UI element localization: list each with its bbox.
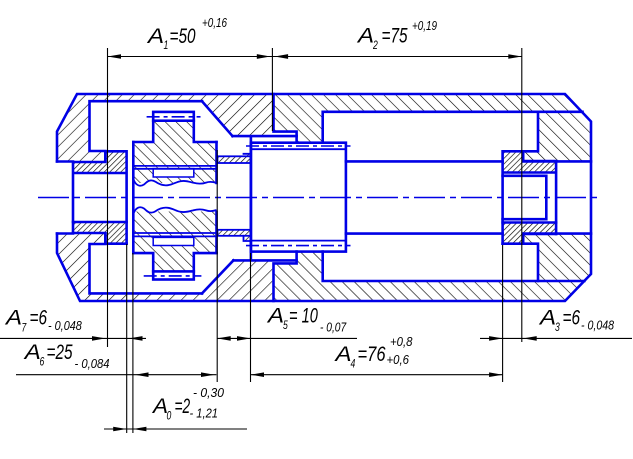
collar left rim [233, 136, 297, 260]
left bushing bottom section [73, 222, 127, 244]
svg-text:A: A [266, 303, 284, 327]
white slot in hub top [153, 169, 194, 177]
left bushing top section [73, 151, 127, 173]
left bore opening edges [57, 162, 73, 234]
arrows A6 [135, 372, 149, 377]
svg-text:A: A [538, 305, 556, 329]
svg-text:+0,19: +0,19 [412, 20, 438, 33]
arrows A0 [113, 427, 127, 432]
svg-text:A: A [4, 305, 22, 329]
extension line right bushing left face [502, 245, 504, 382]
svg-text:4: 4 [351, 358, 356, 371]
right bushing bottom section [503, 223, 556, 244]
svg-text:=6: =6 [30, 305, 48, 329]
dimension line A7 A5 A3 [0, 337, 632, 339]
extension line bushing flange right face [126, 244, 128, 433]
svg-text:A: A [333, 341, 351, 365]
chamber slant top [202, 101, 233, 136]
cup bore surfaces [523, 161, 591, 233]
gear hub top [133, 142, 216, 183]
housing cup top-right wall [523, 112, 591, 162]
thin blue inner lines [133, 149, 346, 240]
svg-text:A: A [146, 23, 164, 47]
arrows A7 [92, 336, 106, 341]
housing left body, top half [57, 94, 272, 162]
spacer outline [218, 156, 251, 163]
extension line collar left face [250, 253, 252, 382]
shaft [346, 161, 503, 233]
svg-text:3: 3 [555, 322, 560, 335]
svg-text:=75: =75 [382, 23, 408, 47]
chamber slant bottom [202, 260, 233, 293]
housing cup top band [272, 94, 582, 143]
gear flanks and ledges [133, 121, 216, 142]
spacer ring bottom lip [244, 236, 251, 241]
svg-text:6: 6 [40, 356, 45, 369]
svg-text:- 0,048: - 0,048 [48, 319, 82, 333]
svg-text:- 1,21: - 1,21 [190, 406, 218, 421]
svg-text:=50: =50 [170, 23, 196, 47]
dimension line A1 A2 [108, 56, 522, 58]
housing left body, bottom half [57, 234, 272, 302]
joint face of cup [274, 94, 297, 143]
svg-text:- 0,07: - 0,07 [320, 322, 347, 335]
right bushing top section [503, 151, 556, 172]
arrows A5 [217, 336, 231, 341]
svg-text:+0,8: +0,8 [390, 334, 413, 349]
hub faces [133, 142, 216, 253]
white above bottom wave [133, 199, 216, 214]
dimension line A0 [104, 428, 247, 430]
housing cup bottom-right wall [523, 234, 591, 281]
collar inner lines [251, 149, 346, 240]
spacer ring top [218, 156, 251, 163]
white under top wave (shaft break) [133, 180, 216, 197]
svg-text:- 0,048: - 0,048 [581, 319, 615, 333]
svg-text:0: 0 [167, 410, 172, 423]
spacer ring top lip [244, 154, 251, 157]
gear tooth top [153, 121, 194, 142]
cup inner ceiling / floor [323, 112, 583, 143]
svg-text:5: 5 [283, 320, 288, 333]
svg-text:=2: =2 [175, 394, 191, 418]
svg-text:= 10: = 10 [289, 303, 318, 328]
gear tooth cap bottom [153, 271, 194, 279]
left bushing [73, 151, 127, 243]
arrows [92, 54, 537, 431]
shaft journal [503, 176, 547, 219]
svg-text:2: 2 [372, 40, 378, 53]
svg-text:- 0,30: - 0,30 [193, 386, 224, 400]
extension line gear hub right face [216, 150, 218, 382]
svg-text:+0,6: +0,6 [387, 352, 410, 367]
svg-text:A: A [151, 393, 168, 417]
white slot in hub bottom [153, 237, 194, 245]
svg-text:1: 1 [164, 40, 169, 53]
svg-text:=25: =25 [47, 339, 73, 363]
arrows A1 A2 [108, 54, 122, 59]
svg-text:A: A [23, 339, 41, 363]
center line [38, 117, 601, 276]
cup chamber face right [523, 112, 538, 152]
hub bore lines [133, 166, 216, 237]
waves [133, 180, 216, 214]
gear tooth cap top [153, 112, 194, 121]
svg-text:=76: =76 [358, 343, 386, 367]
extension line cup shoulder face [271, 48, 273, 131]
housing cup bottom band [272, 252, 584, 301]
svg-text:- 0,084: - 0,084 [75, 356, 110, 371]
extension line gear hub left face [132, 253, 134, 433]
right bushing [503, 151, 556, 243]
left chamber inner contour [90, 101, 203, 161]
arrows A3 [489, 336, 503, 341]
svg-text:=6: =6 [563, 305, 581, 329]
collar outline [251, 143, 346, 252]
svg-text:+0,16: +0,16 [202, 17, 228, 30]
gear hub bottom [133, 212, 216, 254]
extension line bushing flange left face [107, 48, 109, 347]
svg-text:A: A [356, 23, 374, 47]
arrows A4 [251, 372, 265, 377]
gear tooth bottom [153, 253, 194, 271]
spacer ring bottom [218, 230, 251, 236]
extension line right bushing step face [521, 48, 523, 342]
housing outer contour [57, 94, 591, 301]
dimension line A6 A4 [16, 374, 503, 376]
